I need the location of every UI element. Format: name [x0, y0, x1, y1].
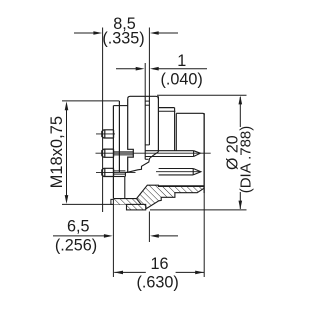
- collar top edge: [158, 107, 174, 109]
- section hatch flange and barrel wall: [137, 185, 204, 209]
- lower front contact pin centerline: [156, 171, 201, 173]
- flange groove ticks: [145, 101, 149, 159]
- svg-text:(.256): (.256): [55, 237, 97, 255]
- dim M18 dimension line with arrows: [65, 101, 69, 203]
- section hatch flange bottom piece: [127, 204, 146, 210]
- dim 1 extension line left: [144, 63, 146, 96]
- contact pin 3 shaft: [114, 171, 126, 174]
- svg-text:M18x0,75: M18x0,75: [48, 116, 66, 188]
- barrel rear step edge: [175, 113, 177, 151]
- section hatch rear tube wall: [113, 199, 146, 205]
- contact pin 2 shaft: [114, 152, 133, 155]
- threaded barrel thread end line: [118, 101, 120, 172]
- flange front face: [157, 96, 159, 152]
- svg-text:(.040): (.040): [160, 70, 202, 88]
- contact pin 1 solder cup: [102, 130, 114, 138]
- middle contact pin: [145, 151, 200, 157]
- dim 8,5 arrow right: [150, 31, 178, 35]
- axis centerline: [96, 152, 211, 154]
- svg-text:16: 16: [150, 255, 168, 273]
- contact pin 1 centerline: [96, 133, 115, 135]
- dim 1 arrow left: [116, 67, 145, 71]
- bore bottom line: [158, 185, 204, 187]
- insulator step below pin 3: [113, 177, 124, 199]
- dim 6,5 leader with arrow: [53, 234, 113, 238]
- section rear tube wall end cap: [111, 199, 114, 204]
- dim dia20 bottom extension line: [150, 209, 247, 211]
- dim 8,5 extension line left: [102, 28, 104, 213]
- flange groove left wall: [144, 96, 146, 159]
- svg-text:(DIA .788): (DIA .788): [238, 126, 255, 194]
- contact pin 2 solder cup: [102, 149, 114, 157]
- dim 6,5 right arrow: [150, 234, 178, 238]
- threaded barrel rear face: [112, 106, 114, 199]
- svg-text:1: 1: [177, 52, 186, 70]
- collar inner line: [158, 110, 175, 112]
- svg-text:(.630): (.630): [136, 274, 178, 292]
- dim M18 top extension line: [62, 100, 119, 102]
- dim 8,5 extension line right: [148, 28, 150, 97]
- flange groove right wall: [148, 96, 150, 145]
- dim 16 dimension line with arrows: [114, 271, 204, 275]
- dim 16 left extension line: [112, 205, 114, 277]
- dim 6,5 right extension line: [148, 212, 150, 243]
- front barrel front face: [203, 113, 205, 193]
- dim 8,5 arrow left: [74, 31, 102, 35]
- contact pin 3 centerline: [96, 171, 136, 173]
- dim dia20 top extension line: [157, 94, 247, 96]
- front barrel top edge: [176, 113, 204, 115]
- dim M18 bottom extension line: [62, 203, 146, 205]
- svg-text:6,5: 6,5: [67, 218, 90, 236]
- contact pin 3 solder cup: [102, 168, 114, 176]
- dim dia20 dimension line with arrows: [239, 96, 243, 210]
- dim 16 right extension line: [203, 113, 205, 277]
- svg-text:(.335): (.335): [102, 29, 144, 47]
- insulator contour: [125, 152, 158, 177]
- collar front step edge: [174, 108, 176, 151]
- flange body top edge: [128, 96, 159, 99]
- lower front contact pin: [159, 169, 201, 175]
- threaded barrel shank top line: [113, 105, 127, 107]
- flange body left edge with pin tabs: [128, 99, 134, 172]
- dim 1 arrow right: [150, 67, 207, 71]
